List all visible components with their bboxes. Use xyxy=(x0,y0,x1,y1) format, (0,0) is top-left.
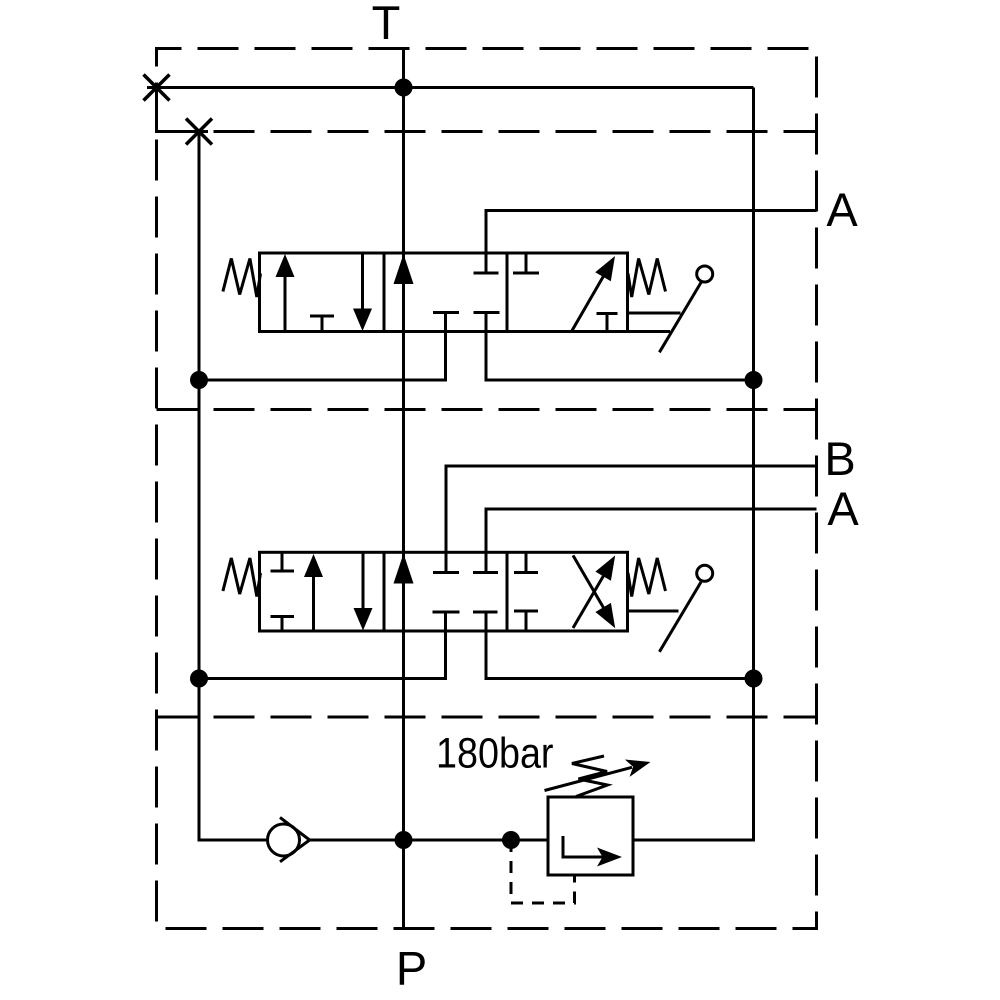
valve V1 right position diagonal arrow xyxy=(572,256,616,332)
valve V1 left position up arrow xyxy=(276,254,295,332)
svg-text:T: T xyxy=(372,0,401,49)
valve V2 lever bracket xyxy=(628,610,679,613)
section divider line 3 (dashed) xyxy=(157,716,817,719)
relief valve RV1 adjustment arrow xyxy=(545,760,651,791)
valve V2 center blocked port bottom right xyxy=(473,611,498,614)
junction: V1 gallery left node xyxy=(190,371,208,389)
section divider line 2 (dashed) xyxy=(157,408,817,411)
valve V2 right return spring xyxy=(628,558,666,597)
valve V1 center blocked port bottom left xyxy=(433,311,459,314)
valve V1 lever bracket xyxy=(628,313,681,332)
check valve CV1 xyxy=(268,817,310,861)
valve V2 center blocked port bottom left xyxy=(433,611,460,614)
junction: V2 gallery left node xyxy=(190,670,208,688)
valve V1 right position blocked port bottom xyxy=(597,314,618,332)
valve V2 crossed arrow down xyxy=(573,555,615,628)
plugged port X2 xyxy=(186,119,212,145)
valve V1 left position down arrow xyxy=(353,253,372,331)
valve V2 center blocked port A top xyxy=(473,571,498,574)
valve V1 bypass arrow xyxy=(394,254,414,284)
valve V2 right section blocked port bottom xyxy=(514,611,538,631)
valve V1 hand lever xyxy=(659,266,712,352)
wire: port A line of valve V1 xyxy=(486,211,817,274)
valve V1 left return spring xyxy=(223,259,261,298)
svg-text:A: A xyxy=(827,482,859,535)
valve V2 crossed arrow up xyxy=(573,555,615,628)
valve V1 left position blocked port xyxy=(310,316,334,332)
junction: V2 gallery right node xyxy=(745,670,763,688)
valve V1 right section blocked port top xyxy=(513,253,539,273)
junction: V1 gallery right node xyxy=(745,371,763,389)
svg-text:P: P xyxy=(396,942,427,995)
valve V2 hand lever xyxy=(659,565,712,652)
wire: port B line of valve V2 xyxy=(446,466,817,573)
svg-text:180bar: 180bar xyxy=(436,731,554,778)
wire: pump line from check valve to relief valve xyxy=(310,839,548,842)
relief valve RV1 adjustable spring xyxy=(572,756,608,797)
valve V2 left position blocked port top xyxy=(271,552,295,571)
svg-text:B: B xyxy=(824,432,855,485)
wire: valve V1 gallery right segment xyxy=(486,313,754,381)
wire: valve V2 gallery left segment xyxy=(199,612,446,679)
valve V2 center blocked port B top xyxy=(433,571,459,574)
valve V2 bypass arrow xyxy=(394,554,414,584)
wire: center bypass line T to P xyxy=(402,49,405,929)
plugged port X1 xyxy=(144,75,170,101)
valve V1 body xyxy=(260,253,628,332)
junction: tank line node xyxy=(395,79,413,97)
valve V2 body xyxy=(260,552,628,631)
junction: pilot branch node xyxy=(502,831,520,849)
valve V2 left position blocked port bottom xyxy=(271,617,295,632)
wire: right return line down to relief outlet xyxy=(633,88,754,841)
valve V2 right section blocked port top xyxy=(514,552,538,572)
valve V2 left return spring xyxy=(223,558,261,597)
manifold enclosure boundary (dashed) xyxy=(157,49,817,929)
valve V1 right return spring xyxy=(628,259,666,298)
valve V2 left position up arrow xyxy=(304,554,323,631)
wire: left border drop from X1 to X2 xyxy=(157,88,209,132)
wire: valve V2 gallery right segment xyxy=(486,612,754,679)
valve V2 left position down arrow xyxy=(354,552,373,630)
wire: valve V1 gallery left segment xyxy=(199,313,446,381)
valve V1 center blocked port bottom right xyxy=(474,311,500,314)
svg-text:A: A xyxy=(826,183,858,236)
relief valve RV1 body xyxy=(548,797,633,875)
valve V1 center blocked port A (top) xyxy=(474,272,499,275)
section divider line 1 (dashed) xyxy=(157,130,817,133)
wire: left supply line down to check valve xyxy=(199,132,267,841)
relief valve RV1 pilot line (dashed) xyxy=(511,840,575,903)
wire: port A line of valve V2 xyxy=(486,509,817,573)
relief valve RV1 internal flow arrow xyxy=(563,836,622,867)
wire: top tank line xyxy=(147,86,754,89)
junction: pump line center node xyxy=(395,831,413,849)
